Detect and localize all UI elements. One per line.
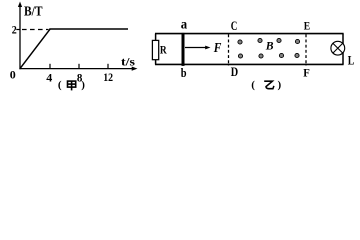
svg-text:(: ( [58, 79, 62, 91]
y-axis (B axis) [19, 5, 21, 69]
bottom wire [155, 63, 344, 65]
svg-text:): ) [278, 79, 282, 91]
svg-text:12: 12 [103, 70, 113, 84]
svg-text:F: F [213, 41, 222, 56]
right branch lower wire [342, 53, 344, 65]
svg-text:L: L [348, 52, 355, 67]
svg-text:t/s: t/s [121, 57, 136, 69]
svg-text:4: 4 [46, 71, 52, 85]
svg-text:a: a [181, 17, 187, 32]
x-axis arrowhead [132, 67, 138, 71]
left branch lower wire stub [155, 60, 157, 65]
lamp X stroke 1 [333, 43, 343, 53]
right branch upper wire [342, 34, 344, 44]
caption glyph 乙 (drawn strokes) [264, 81, 274, 89]
svg-text:B: B [265, 41, 274, 53]
left branch upper wire stub [155, 34, 157, 41]
dashed guide line at B=2 [22, 29, 49, 31]
field dots (B out of page) [238, 38, 300, 58]
lamp L (circle) [331, 41, 345, 55]
svg-text:(: ( [251, 79, 255, 91]
svg-text:D: D [231, 65, 238, 79]
dashed field boundary E-F [305, 34, 307, 66]
force arrow F [185, 47, 207, 49]
x tick 8 [78, 64, 80, 69]
svg-text:R: R [160, 45, 167, 57]
caption glyph 甲 (drawn strokes) [68, 81, 76, 90]
x-axis (t axis) [19, 68, 133, 70]
svg-text:F: F [303, 66, 310, 80]
svg-text:B/T: B/T [24, 4, 43, 19]
resistor R box [152, 40, 158, 59]
svg-text:2: 2 [12, 22, 17, 36]
B-t curve rising segment [20, 29, 50, 68]
svg-text:E: E [304, 21, 311, 33]
y-axis arrowhead [18, 2, 22, 8]
rod ab (slider) [182, 33, 185, 66]
lamp X stroke 2 [333, 43, 343, 53]
svg-text:b: b [181, 65, 187, 80]
svg-text:): ) [81, 79, 85, 91]
y tick at B=2 [16, 29, 20, 31]
dashed field boundary C-D [228, 34, 230, 66]
svg-text:C: C [231, 19, 238, 33]
B-t curve plateau segment [49, 28, 128, 30]
x tick 4 [49, 64, 51, 69]
top wire [155, 33, 344, 35]
svg-text:0: 0 [10, 70, 16, 82]
x tick 12 [107, 64, 109, 69]
